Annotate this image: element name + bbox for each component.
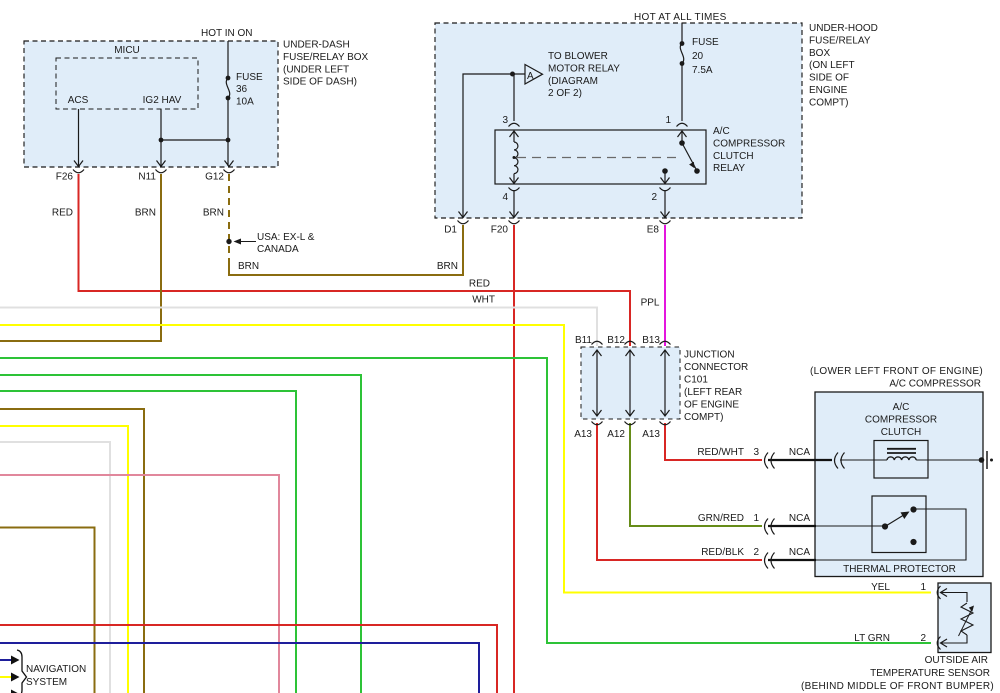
svg-text:RED: RED [52,208,73,219]
svg-text:C101: C101 [684,375,708,386]
svg-text:COMPRESSOR: COMPRESSOR [713,138,785,149]
svg-text:A/C: A/C [893,402,910,413]
svg-text:7.5A: 7.5A [692,65,713,76]
svg-text:(LEFT REAR: (LEFT REAR [684,387,742,398]
svg-text:ACS: ACS [68,95,89,106]
svg-text:CLUTCH: CLUTCH [881,427,922,438]
svg-text:B11: B11 [575,335,592,346]
svg-text:FUSE/RELAY: FUSE/RELAY [809,35,871,46]
svg-text:N11: N11 [138,172,156,183]
svg-text:1: 1 [665,115,671,126]
svg-text:SIDE OF DASH): SIDE OF DASH) [283,77,357,88]
svg-text:A13: A13 [642,429,660,440]
svg-text:(LOWER LEFT FRONT OF ENGINE): (LOWER LEFT FRONT OF ENGINE) [810,366,983,377]
svg-text:RED/WHT: RED/WHT [697,447,744,458]
svg-text:HOT AT ALL TIMES: HOT AT ALL TIMES [634,12,727,23]
svg-text:USA: EX-L &: USA: EX-L & [257,232,315,243]
svg-text:CONNECTOR: CONNECTOR [684,362,748,373]
svg-text:1: 1 [753,513,759,524]
svg-text:G12: G12 [205,172,224,183]
svg-text:BOX: BOX [809,48,830,59]
svg-text:1: 1 [920,582,926,593]
svg-text:A/C COMPRESSOR: A/C COMPRESSOR [889,379,981,390]
svg-text:B13: B13 [642,335,660,346]
svg-text:LT GRN: LT GRN [854,633,890,644]
svg-text:FUSE/RELAY BOX: FUSE/RELAY BOX [283,52,369,63]
svg-text:RED/BLK: RED/BLK [701,547,744,558]
svg-text:BRN: BRN [203,208,224,219]
svg-text:NCA: NCA [789,513,810,524]
svg-text:UNDER-DASH: UNDER-DASH [283,40,350,51]
svg-text:THERMAL PROTECTOR: THERMAL PROTECTOR [843,564,956,575]
svg-text:B12: B12 [607,335,625,346]
svg-text:NCA: NCA [789,547,810,558]
svg-text:E8: E8 [647,225,660,236]
svg-text:SIDE OF: SIDE OF [809,73,849,84]
svg-text:20: 20 [692,51,704,62]
svg-text:FUSE: FUSE [692,37,719,48]
svg-text:FUSE: FUSE [236,72,263,83]
svg-text:MOTOR RELAY: MOTOR RELAY [548,63,620,74]
svg-text:A12: A12 [607,429,625,440]
svg-text:(BEHIND MIDDLE OF FRONT BUMPER: (BEHIND MIDDLE OF FRONT BUMPER) [801,681,994,692]
svg-text:A13: A13 [574,429,592,440]
svg-text:COMPT): COMPT) [684,412,723,423]
svg-text:10A: 10A [236,97,254,108]
svg-text:JUNCTION: JUNCTION [684,350,735,361]
svg-text:2: 2 [753,547,759,558]
svg-text:NCA: NCA [789,447,810,458]
svg-text:4: 4 [502,192,508,203]
svg-text:ENGINE: ENGINE [809,85,848,96]
svg-text:SYSTEM: SYSTEM [26,677,67,688]
svg-text:BRN: BRN [238,261,259,272]
svg-text:2: 2 [651,192,657,203]
svg-text:F26: F26 [56,172,74,183]
svg-text:3: 3 [753,447,759,458]
svg-text:HOT IN ON: HOT IN ON [201,28,252,39]
svg-text:YEL: YEL [871,582,890,593]
svg-text:D1: D1 [444,225,457,236]
svg-text:OF ENGINE: OF ENGINE [684,400,739,411]
svg-text:OUTSIDE AIR: OUTSIDE AIR [925,655,988,666]
svg-text:PPL: PPL [641,298,660,309]
svg-text:COMPRESSOR: COMPRESSOR [865,415,937,426]
svg-text:IG2 HAV: IG2 HAV [143,95,182,106]
svg-text:2 OF 2): 2 OF 2) [548,88,582,99]
svg-text:MICU: MICU [114,45,140,56]
svg-text:RELAY: RELAY [713,163,745,174]
svg-text:36: 36 [236,84,248,95]
svg-text:3: 3 [502,115,508,126]
svg-text:GRN/RED: GRN/RED [698,513,744,524]
svg-text:TEMPERATURE SENSOR: TEMPERATURE SENSOR [870,668,990,679]
svg-text:COMPT): COMPT) [809,97,848,108]
svg-text:NAVIGATION: NAVIGATION [26,664,86,675]
svg-text:CLUTCH: CLUTCH [713,151,754,162]
svg-text:WHT: WHT [472,295,495,306]
svg-text:CANADA: CANADA [257,244,299,255]
svg-text:F20: F20 [491,225,509,236]
svg-text:A: A [527,71,534,82]
svg-text:A/C: A/C [713,126,730,137]
svg-text:BRN: BRN [135,208,156,219]
svg-text:UNDER-HOOD: UNDER-HOOD [809,23,878,34]
svg-text:(DIAGRAM: (DIAGRAM [548,76,598,87]
svg-text:(UNDER LEFT: (UNDER LEFT [283,64,349,75]
svg-text:(ON LEFT: (ON LEFT [809,60,855,71]
svg-text:TO BLOWER: TO BLOWER [548,51,608,62]
svg-text:2: 2 [920,633,926,644]
svg-text:BRN: BRN [437,261,458,272]
svg-text:RED: RED [469,279,490,290]
